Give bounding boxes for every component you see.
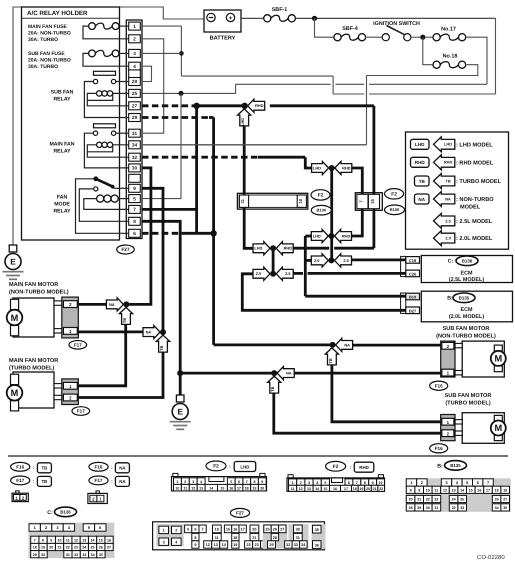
svg-text:8: 8 [133, 219, 136, 224]
ECM 2.0L box [421, 291, 512, 322]
svg-text:18: 18 [353, 487, 357, 491]
wire pin32 dashed to LHD node [142, 157, 311, 168]
svg-text:20A: NON-TURBO: 20A: NON-TURBO [28, 30, 71, 36]
svg-text:E: E [177, 407, 183, 416]
svg-text:MAIN FAN: MAIN FAN [49, 141, 74, 147]
svg-text:8: 8 [410, 489, 412, 493]
svg-text:10: 10 [58, 539, 62, 543]
svg-text:10: 10 [426, 489, 430, 493]
svg-text:SBF-4: SBF-4 [342, 26, 358, 32]
tag RHD into ladder-B mid [335, 229, 352, 242]
svg-text:F27: F27 [121, 247, 130, 253]
svg-text:(2.0L MODEL): (2.0L MODEL) [449, 314, 484, 320]
svg-text:ECM: ECM [461, 271, 473, 277]
tag NA sub fan minus [277, 367, 294, 380]
svg-text:10: 10 [215, 528, 219, 532]
svg-text:C:: C: [47, 510, 53, 516]
svg-text:MAIN FAN FUSE: MAIN FAN FUSE [28, 24, 68, 30]
node ignition output [420, 35, 425, 40]
svg-text:10: 10 [298, 198, 303, 203]
connector F2/B100 right labels [385, 189, 405, 215]
svg-text:3: 3 [163, 540, 165, 544]
svg-text:M: M [494, 423, 502, 433]
svg-text:LHD: LHD [313, 165, 321, 170]
wire pin2 to pin31 [142, 39, 164, 133]
svg-text:RELAY: RELAY [53, 148, 71, 154]
svg-text:F16: F16 [435, 383, 443, 388]
svg-text:9: 9 [261, 480, 263, 484]
svg-text:B19: B19 [409, 295, 417, 300]
svg-text:19: 19 [359, 487, 363, 491]
svg-text:F16: F16 [16, 464, 24, 469]
svg-text:15: 15 [469, 489, 473, 493]
svg-text:35: 35 [503, 506, 507, 510]
node sub fan minus NA/TB split [271, 370, 277, 376]
wire main fan NA node to motors [78, 303, 107, 306]
svg-text:29: 29 [33, 553, 37, 557]
wire F2 pin11 bottom to LHD arrow [244, 207, 253, 248]
svg-text:22: 22 [66, 546, 70, 550]
svg-text:12: 12 [191, 486, 195, 490]
wire pin27 branch to F2 pin11 [243, 126, 246, 196]
svg-text:TB: TB [122, 318, 127, 323]
svg-text:16: 16 [233, 528, 237, 532]
svg-text:NA: NA [418, 197, 425, 202]
svg-text:26: 26 [273, 528, 277, 532]
wire pin27 dashed to nodes [142, 106, 374, 195]
svg-text:17: 17 [237, 486, 241, 490]
svg-text:14: 14 [209, 486, 213, 490]
svg-text:19: 19 [252, 486, 256, 490]
svg-text:LHD: LHD [240, 464, 249, 469]
svg-text:LHD: LHD [444, 142, 452, 147]
connector pin C26 [406, 270, 420, 277]
svg-text:F2: F2 [333, 464, 339, 470]
svg-text:13: 13 [307, 487, 311, 491]
wire pin6 dashed [142, 232, 214, 235]
connector F17 label 1 [69, 341, 87, 350]
svg-text:F27: F27 [236, 511, 244, 516]
svg-text:5: 5 [230, 480, 232, 484]
svg-text:M: M [11, 388, 19, 398]
svg-text:21: 21 [58, 546, 62, 550]
connector F16 sub fan turbo [441, 415, 455, 441]
svg-text:7: 7 [356, 481, 358, 485]
wire pin1 fuse feed [142, 25, 181, 27]
svg-text:22: 22 [379, 487, 383, 491]
svg-text:MAIN FAN MOTOR: MAIN FAN MOTOR [9, 358, 58, 364]
svg-text:31: 31 [132, 131, 138, 136]
svg-text:2.0: 2.0 [445, 236, 450, 241]
svg-text:17: 17 [486, 489, 490, 493]
connector pin B27 [406, 307, 420, 314]
svg-text:4: 4 [133, 64, 136, 69]
svg-text:CO-02280: CO-02280 [477, 554, 505, 561]
tag 2.5 on ladder-B lower [335, 254, 352, 267]
svg-text:B136: B136 [462, 259, 473, 264]
svg-text:5: 5 [187, 528, 189, 532]
node ladder-B lower [328, 257, 334, 263]
svg-text:9: 9 [194, 543, 196, 547]
svg-text:6: 6 [238, 480, 240, 484]
svg-text:NA: NA [146, 330, 152, 335]
svg-text:F17: F17 [74, 342, 82, 347]
battery B1 [204, 10, 241, 42]
svg-text:+: + [229, 15, 233, 22]
svg-text:B100: B100 [390, 207, 400, 212]
svg-text:1: 1 [292, 481, 294, 485]
svg-text:30: 30 [41, 553, 45, 557]
svg-text:5: 5 [324, 481, 326, 485]
svg-text:18: 18 [495, 489, 499, 493]
node ladder-A lower [270, 271, 276, 277]
legend RHD model [411, 155, 494, 170]
svg-text:3: 3 [133, 51, 136, 56]
svg-text:E: E [10, 257, 16, 266]
wire SBF-1 to main feed node [295, 17, 495, 19]
svg-text:16: 16 [477, 489, 481, 493]
wire pin7 joining pin27 vertical [142, 208, 197, 211]
wire ladder-A vertical [272, 248, 275, 273]
svg-text:27: 27 [280, 528, 284, 532]
svg-text:4: 4 [316, 481, 318, 485]
svg-text:25: 25 [91, 546, 95, 550]
wire F2 pin7 bottom to RHD node [351, 209, 362, 236]
wire pin34 thin [142, 144, 367, 146]
tag NA main fan minus [143, 326, 160, 339]
svg-text:B27: B27 [409, 308, 417, 313]
svg-text:1: 1 [163, 529, 165, 533]
svg-text:13: 13 [82, 539, 86, 543]
svg-text:12: 12 [299, 487, 303, 491]
svg-text:A/C RELAY HOLDER: A/C RELAY HOLDER [27, 10, 88, 17]
svg-text:NA: NA [109, 302, 115, 307]
svg-text:B:: B: [447, 296, 453, 302]
svg-text:2.5: 2.5 [343, 258, 349, 263]
tag TB sub fan plus [325, 348, 338, 365]
svg-text:21: 21 [252, 536, 256, 540]
node ladder-B LHD/RHD upper [329, 165, 335, 171]
connector F16 label 1 [430, 381, 448, 390]
svg-text:14: 14 [91, 539, 95, 543]
fuse SBF-1 [264, 7, 296, 22]
svg-text:TB: TB [328, 358, 333, 363]
svg-text:: 2.0L MODEL: : 2.0L MODEL [456, 236, 493, 242]
svg-text:20: 20 [366, 487, 370, 491]
fuse sub fan fuse [28, 50, 129, 70]
svg-text:NA: NA [119, 479, 126, 484]
svg-text:(TURBO MODEL): (TURBO MODEL) [9, 364, 55, 371]
svg-text:20: 20 [49, 546, 53, 550]
svg-text:28: 28 [273, 536, 277, 540]
wire main fan motor minus NA [78, 330, 142, 333]
svg-text:SUB FAN FUSE: SUB FAN FUSE [28, 51, 65, 57]
svg-text:11: 11 [183, 486, 187, 490]
svg-text:10: 10 [175, 486, 179, 490]
svg-text:No.17: No.17 [441, 27, 456, 33]
svg-text:BATTERY: BATTERY [210, 36, 236, 42]
fuse No.18 [423, 37, 466, 68]
tag 2.5 on ladder-A lower [276, 267, 293, 280]
svg-text:32: 32 [74, 553, 78, 557]
wire 2.0 loop to ECM B27 [242, 274, 405, 311]
svg-text:C18: C18 [409, 258, 417, 263]
svg-text:36: 36 [315, 543, 319, 547]
svg-text:32: 32 [132, 155, 138, 160]
svg-text:MAIN FAN MOTOR: MAIN FAN MOTOR [9, 282, 58, 288]
tag 2.0 on ladder-B lower [311, 254, 328, 267]
connector pins B19 B27 bracket [401, 293, 406, 313]
node ignition feed branch [179, 91, 184, 96]
connector pin B19 [406, 293, 420, 300]
drawing number [477, 554, 505, 561]
svg-text:6: 6 [348, 481, 350, 485]
wire TB branch to turbo sub fan cell1 [332, 364, 442, 422]
svg-text:14: 14 [460, 489, 464, 493]
svg-text:B135: B135 [450, 463, 461, 468]
svg-text:26: 26 [495, 498, 499, 502]
svg-text:11: 11 [434, 489, 438, 493]
svg-text:34: 34 [495, 506, 499, 510]
svg-text:TB: TB [159, 345, 164, 350]
svg-text:: 2.5L MODEL: : 2.5L MODEL [456, 219, 493, 225]
svg-text:32: 32 [452, 506, 456, 510]
tag NA main fan plus [106, 298, 123, 311]
wire pin29 to sub fan motors [142, 118, 333, 345]
svg-text:33: 33 [460, 506, 464, 510]
svg-text:RHD: RHD [444, 160, 453, 165]
svg-text:3: 3 [192, 480, 194, 484]
svg-text:19: 19 [41, 546, 45, 550]
svg-text:8: 8 [253, 480, 255, 484]
svg-text:23: 23 [74, 546, 78, 550]
svg-text:SUB FAN MOTOR: SUB FAN MOTOR [443, 326, 490, 332]
svg-text:18: 18 [33, 546, 37, 550]
svg-text:B:: B: [437, 464, 443, 470]
svg-text:30A: TURBO: 30A: TURBO [28, 37, 58, 43]
connector F17 main fan non-turbo [62, 297, 79, 338]
svg-text:1: 1 [133, 24, 136, 29]
svg-text:MODE: MODE [54, 202, 70, 208]
table F16/F17 NA [88, 462, 129, 503]
tag LHD into ladder-B upper [312, 161, 329, 174]
svg-text:NA: NA [445, 196, 451, 201]
separator line [8, 455, 508, 457]
svg-text:32: 32 [286, 543, 290, 547]
svg-text:16: 16 [107, 539, 111, 543]
ignition switch [366, 21, 421, 41]
wire pin3 fuse feed [142, 52, 181, 54]
svg-text:20A: NON-TURBO: 20A: NON-TURBO [28, 58, 71, 64]
motor sub fan (turbo) [445, 393, 506, 443]
node pin29 pin6 junction [210, 230, 216, 236]
svg-text:LHD: LHD [415, 142, 425, 147]
svg-text:6: 6 [194, 528, 196, 532]
svg-text:29: 29 [417, 506, 421, 510]
svg-text:6: 6 [133, 231, 136, 236]
svg-text:IGNITION SWITCH: IGNITION SWITCH [373, 21, 420, 27]
svg-text:26: 26 [99, 546, 103, 550]
svg-text:F2: F2 [391, 192, 397, 198]
svg-text:7: 7 [133, 207, 136, 212]
svg-text:33: 33 [294, 543, 298, 547]
svg-text:11: 11 [215, 536, 219, 540]
svg-text:: TURBO MODEL: : TURBO MODEL [456, 179, 502, 185]
svg-text:7: 7 [34, 539, 36, 543]
svg-text:17: 17 [344, 487, 348, 491]
svg-text:1: 1 [176, 480, 178, 484]
svg-text:25: 25 [132, 91, 138, 96]
node sub fan plus NA/TB split [330, 342, 336, 348]
svg-text:RHD: RHD [284, 246, 293, 251]
svg-text:35: 35 [99, 553, 103, 557]
motor sub fan (non-turbo) [436, 326, 506, 377]
tag TB main fan plus [119, 307, 132, 324]
svg-text:RHD: RHD [342, 233, 351, 238]
svg-text:33: 33 [82, 553, 86, 557]
table F2 LHD connector [172, 461, 267, 491]
svg-text:27: 27 [132, 104, 138, 109]
svg-text:21: 21 [373, 487, 377, 491]
svg-text:2: 2 [133, 37, 136, 42]
svg-text:24: 24 [82, 546, 86, 550]
svg-text:28: 28 [132, 79, 138, 84]
connector F27 label [117, 245, 135, 254]
tag LHD into ladder-B mid [311, 229, 328, 242]
node main fan minus junction [160, 329, 166, 335]
svg-text:C26: C26 [409, 271, 417, 276]
svg-text:F16: F16 [435, 446, 443, 451]
svg-text:M: M [494, 354, 502, 364]
tag LHD below pin27 node [238, 109, 251, 126]
ECM 2.5L box [421, 256, 512, 284]
svg-text:13: 13 [199, 486, 203, 490]
connector pin C18 [406, 257, 420, 264]
A/C relay holder box [22, 7, 120, 240]
table B B135 pin grid [406, 461, 511, 512]
svg-text:TB: TB [41, 479, 47, 484]
svg-text:11: 11 [66, 539, 70, 543]
fuse main fan fuse [28, 23, 129, 43]
svg-text:NA: NA [119, 466, 126, 471]
legend LHD model [411, 137, 494, 152]
svg-text:20: 20 [409, 498, 413, 502]
svg-text:No.18: No.18 [443, 54, 458, 60]
connector F16 label 2 [430, 444, 448, 453]
wire No.17 to pin 25 [142, 37, 487, 93]
connector F16 sub fan non-turbo [441, 341, 455, 377]
node main fan NA junction [123, 301, 129, 307]
svg-text:7: 7 [246, 480, 248, 484]
svg-text:2.5: 2.5 [285, 271, 291, 276]
svg-text:(2.5L MODEL): (2.5L MODEL) [449, 277, 484, 283]
svg-text:(NON-TURBO MODEL): (NON-TURBO MODEL) [9, 288, 69, 295]
svg-text:RHD: RHD [342, 165, 351, 170]
svg-text:16: 16 [333, 487, 337, 491]
svg-text:SUB FAN: SUB FAN [51, 89, 74, 95]
node pin8 sub fan minus junction [177, 370, 183, 376]
svg-text:13: 13 [452, 489, 456, 493]
svg-text:30: 30 [132, 166, 138, 171]
svg-text:20: 20 [260, 486, 264, 490]
wire pin8 to sub fan ground node [142, 221, 180, 395]
svg-text:15: 15 [323, 487, 327, 491]
svg-text:2: 2 [175, 529, 177, 533]
tag TB sub fan minus [268, 376, 281, 393]
connector pins C18 C26 bracket [401, 256, 406, 276]
svg-text:30: 30 [296, 528, 300, 532]
connector F2/B100 left labels [311, 190, 331, 215]
svg-text:RHD: RHD [415, 160, 426, 165]
svg-text:SUB FAN MOTOR: SUB FAN MOTOR [445, 393, 492, 399]
svg-text:2: 2 [184, 480, 186, 484]
svg-text:8: 8 [42, 539, 44, 543]
wire pin4 to pin28 bracket [142, 66, 152, 81]
wire LHD/2.0 merge to ECM B19 [305, 236, 406, 296]
svg-text:: NON-TURBO: : NON-TURBO [456, 197, 494, 203]
connector F17 label 2 [72, 407, 90, 416]
tag RHD into ladder-A upper [276, 242, 293, 255]
svg-text:: RHD MODEL: : RHD MODEL [456, 160, 494, 166]
table C B136 pin grid [29, 507, 115, 558]
svg-text:20: 20 [252, 528, 256, 532]
wire sub fan plus to cell2 [352, 344, 442, 347]
svg-text:15: 15 [99, 539, 103, 543]
wire feed loop right side to fuses pins 1-3 [181, 18, 495, 94]
relay fan mode relay [53, 176, 128, 233]
motor main fan (non-turbo) [7, 282, 69, 337]
svg-text:F2: F2 [213, 464, 219, 470]
svg-text:LHD: LHD [254, 246, 262, 251]
svg-text:F16: F16 [95, 464, 103, 469]
svg-text:15: 15 [370, 199, 375, 204]
svg-text:14: 14 [315, 487, 319, 491]
svg-text:F17: F17 [16, 478, 24, 483]
svg-text:16: 16 [229, 486, 233, 490]
wire pin27 branch down to pin6 node [195, 106, 198, 234]
legend 2.0L model [434, 231, 493, 246]
tag TB main fan minus [156, 335, 169, 352]
svg-text:2.0: 2.0 [314, 258, 319, 263]
svg-text:RHD: RHD [359, 465, 369, 470]
svg-text:7: 7 [202, 528, 204, 532]
svg-text:19: 19 [233, 543, 237, 547]
tag 2.0 on ladder-A lower [253, 267, 270, 280]
svg-text:21: 21 [417, 498, 421, 502]
svg-text:25: 25 [460, 498, 464, 502]
legend 2.5L model [434, 213, 493, 228]
table F16/F17 TB [11, 462, 52, 501]
svg-text:9: 9 [372, 481, 374, 485]
svg-text:9: 9 [50, 539, 52, 543]
svg-text:12: 12 [443, 489, 447, 493]
svg-text:B135: B135 [459, 296, 470, 301]
svg-text:9: 9 [133, 186, 136, 191]
svg-text:25: 25 [265, 528, 269, 532]
table F27 connector [153, 508, 326, 549]
svg-text:TB: TB [41, 466, 47, 471]
wire SBF-4 feed [315, 18, 334, 37]
svg-text:RELAY: RELAY [53, 96, 71, 102]
svg-text:TB: TB [270, 386, 275, 391]
svg-text:17: 17 [240, 528, 244, 532]
wire TB branch to turbo sub fan cell2 [274, 392, 442, 433]
svg-text:34: 34 [91, 553, 95, 557]
wire battery-positive to SBF-1 [241, 17, 264, 19]
svg-text:MODEL: MODEL [460, 205, 481, 211]
connector F27 pin strip [126, 20, 142, 239]
node pin27 branch B [241, 103, 247, 109]
